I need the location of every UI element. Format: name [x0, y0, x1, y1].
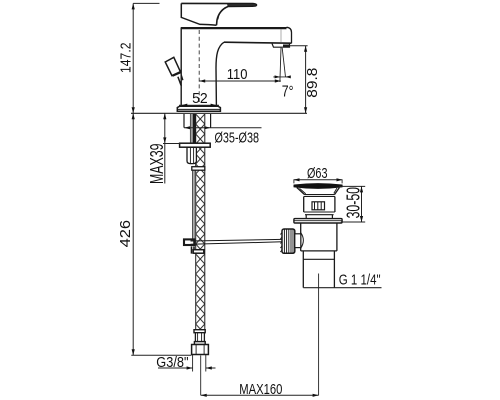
hose crosshatch column [196, 114, 205, 330]
step ring [304, 212, 335, 215]
dim 147.2 [133, 2, 159, 4]
faucet body top edge [181, 27, 287, 29]
drain: dim dia63 [294, 179, 343, 181]
drain upper body [304, 197, 335, 213]
G3/8 hex nut [192, 345, 209, 355]
svg-text:Ø35-Ø38: Ø35-Ø38 [215, 129, 260, 146]
pop-up rod thick upper [193, 114, 196, 143]
hose ferrule below nut [192, 167, 205, 171]
tailpipe bottom line + G 1 1/4 underline [303, 287, 381, 289]
dim 30-50 [339, 186, 365, 222]
dim MAX160 [200, 356, 202, 396]
lower neck [306, 215, 332, 219]
side lever knob [165, 57, 183, 86]
7 degree outlet axis lines [280, 48, 281, 83]
body left edge [180, 27, 182, 106]
drain lower body [301, 223, 337, 251]
svg-text:147.2: 147.2 [118, 43, 135, 74]
spout bottom edge [224, 42, 292, 43]
svg-text:MAX160: MAX160 [239, 381, 282, 398]
dim 110 [199, 80, 281, 82]
drain top disc [294, 184, 342, 188]
svg-text:G 1 1/4": G 1 1/4" [339, 272, 381, 289]
leader line dia35-38 [184, 127, 262, 129]
spout underside curve into body [216, 42, 224, 106]
svg-text:MAX39: MAX39 [147, 144, 167, 185]
base flange [177, 106, 220, 111]
tailpipe collar [303, 251, 334, 288]
dim 426 [132, 113, 134, 355]
hose bottom ferrule [194, 330, 205, 333]
dim 89.8 [290, 45, 308, 47]
svg-text:Ø63: Ø63 [307, 165, 328, 182]
dim 52 [179, 104, 219, 106]
svg-text:426: 426 [117, 220, 134, 248]
hose bracket ring [192, 246, 195, 253]
svg-text:89.8: 89.8 [304, 68, 321, 98]
handle neck inner contour [218, 8, 225, 20]
faucet handle lever [181, 3, 256, 25]
svg-text:110: 110 [227, 66, 248, 83]
ribbed connector [195, 333, 204, 342]
svg-text:G3/8": G3/8" [156, 354, 188, 371]
7 degree tick with arrows [273, 76, 289, 78]
mounting nut [187, 147, 196, 163]
knob connector block [295, 234, 301, 248]
pop-up rod thin [193, 171, 195, 239]
aerator at spout end [272, 44, 290, 48]
handle tip underside line [228, 4, 257, 7]
drain neck ring [304, 195, 335, 197]
washer flange [294, 219, 342, 223]
aerator inner faint line [280, 30, 282, 43]
dim G3/8 [193, 355, 206, 372]
rod clamp [184, 239, 194, 245]
dim MAX39 [164, 113, 166, 183]
knurled knob [280, 229, 294, 253]
shank below counter [184, 114, 211, 128]
ball joint bulge [301, 233, 304, 249]
svg-text:30-50: 30-50 [343, 187, 363, 218]
clamp screw detail [312, 202, 325, 210]
svg-text:7°: 7° [282, 83, 294, 100]
horizontal pop-up rod [191, 239, 283, 244]
drain cup taper [297, 188, 340, 195]
spout right end [287, 27, 292, 43]
handle lever underside [181, 3, 216, 25]
step ring [194, 342, 205, 345]
svg-text:52: 52 [192, 90, 208, 107]
lock nut flange [180, 143, 211, 147]
countertop line [131, 112, 307, 114]
dashed centerline [198, 30, 200, 107]
